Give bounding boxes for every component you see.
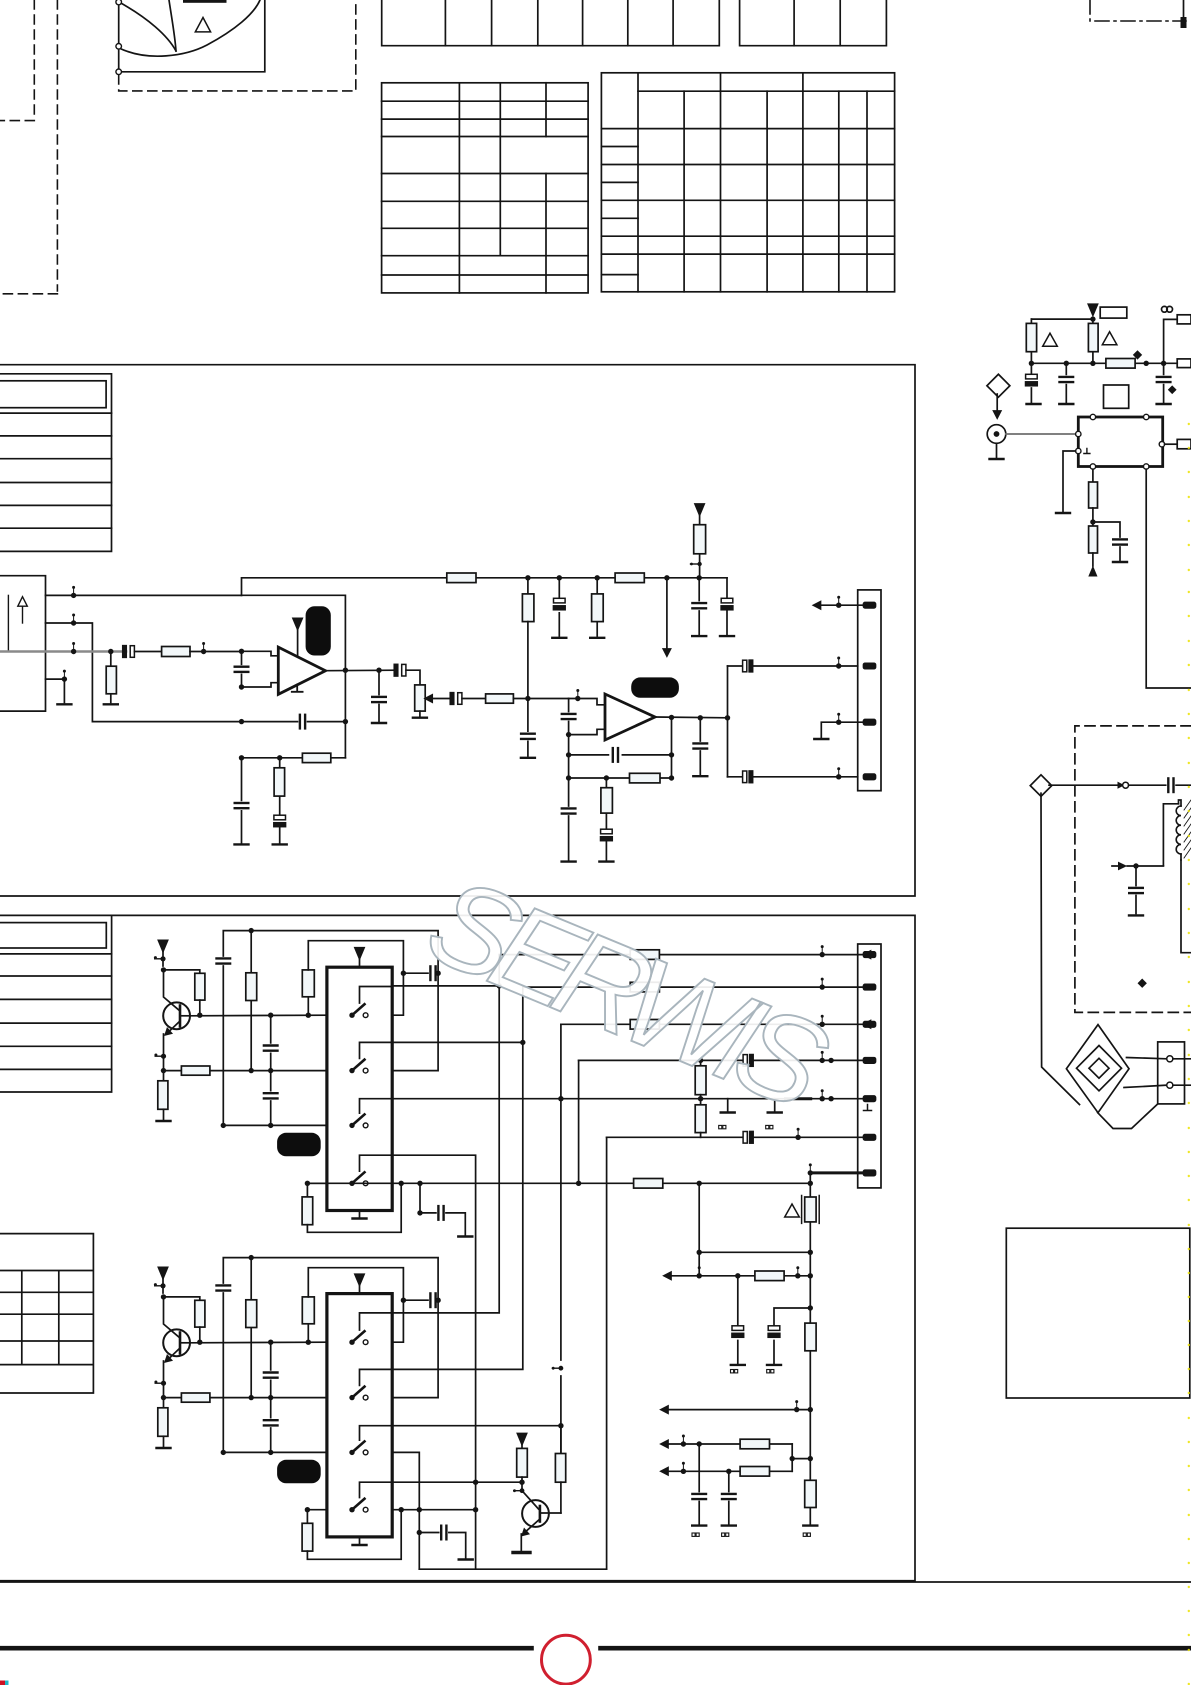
op-amp U1: [278, 647, 325, 694]
wire: [513, 698, 568, 700]
capacitor C21: [217, 958, 231, 963]
row 4 wire left: [307, 1182, 327, 1184]
yoke outer winding: [1066, 1025, 1129, 1113]
switch S7: [349, 1441, 368, 1455]
resistor R10: [279, 758, 281, 815]
resistor R105: [1089, 526, 1098, 553]
op-amp U2: [605, 694, 655, 740]
U1 power: [293, 618, 302, 629]
capacitor C9 below U1 output: [378, 670, 380, 721]
ground: [235, 843, 249, 845]
wire with arrow: [1049, 784, 1118, 786]
ground: [996, 443, 998, 457]
row B: [661, 1406, 668, 1413]
coil bottom wire: [1181, 860, 1191, 953]
dashed enclosure around CRT: [119, 0, 356, 91]
capacitor C32: [264, 1373, 278, 1378]
electrolytic capacitor C1: [123, 646, 135, 658]
wire: [1129, 784, 1166, 786]
vertical feed from row P7: [698, 1183, 700, 1276]
section box: [0, 915, 915, 1580]
resistor R23: [181, 1066, 210, 1075]
ground: [57, 703, 71, 705]
power: [517, 1434, 526, 1445]
top supply bus: [242, 578, 728, 596]
connector gnd glyph: [864, 1105, 872, 1111]
row P5 (switch3 out): [392, 1098, 863, 1100]
row P4: [579, 1059, 864, 1061]
wire: [1092, 508, 1094, 526]
switch S4: [349, 1172, 368, 1186]
capacitor C44: [728, 1471, 730, 1524]
op-amp U1 box top: [242, 595, 346, 758]
IC top capacitor C34: [403, 1299, 428, 1301]
power: [158, 940, 167, 951]
value label box: [1100, 307, 1127, 318]
pin 4: [864, 774, 876, 779]
left dashed partition line 2: [0, 0, 57, 294]
tuner to edge stub wire: [1165, 443, 1178, 445]
emitter rail: [155, 1055, 163, 1057]
capacitor C52: [1135, 866, 1137, 914]
ground: [693, 775, 707, 777]
ground: [599, 861, 613, 863]
U1 output wire: [326, 669, 397, 672]
wire to pot: [406, 670, 420, 685]
row P3: [561, 1023, 864, 1025]
yoke middle winding: [1077, 1046, 1122, 1091]
pin circle 1: [116, 0, 122, 5]
electrolytic capacitor C42: [774, 1308, 810, 1363]
switch S3: [349, 1114, 368, 1128]
IC2 ground: [359, 1537, 361, 1544]
node dot: [1090, 316, 1095, 321]
electrolytic capacitor C8: [450, 693, 462, 705]
resistor R43: [740, 1439, 769, 1449]
IC1 label blob: [277, 1133, 321, 1157]
transformer T1 coil: [1176, 806, 1181, 854]
registration marks: [0, 1681, 5, 1685]
net tick: [691, 563, 700, 565]
ground: [552, 637, 566, 639]
resistor R7: [694, 525, 706, 554]
electrolytic capacitor C10: [274, 815, 286, 826]
U2 output wire: [655, 716, 728, 719]
collector loop resistor R24: [307, 997, 309, 1015]
polarity marks: [731, 1370, 738, 1373]
wire row A1: [190, 1014, 327, 1017]
vertical main right rail: [809, 1173, 811, 1410]
resistor R4: [615, 573, 644, 583]
top loop wire: [223, 931, 438, 1126]
power symbol: [1088, 304, 1097, 315]
warning triangle: [195, 18, 210, 32]
wire row B1: [190, 1341, 327, 1344]
arrow down wire: [996, 394, 998, 412]
output coupling rail: [727, 666, 729, 777]
join rail: [792, 1444, 810, 1471]
transistor Q2: [163, 1329, 190, 1356]
video in diamond: [1030, 775, 1051, 796]
row P7 wire: [307, 1182, 810, 1184]
capacitor C23: [264, 1093, 278, 1098]
U2 feedback cap row: [569, 754, 672, 756]
ground: [1157, 403, 1171, 405]
collector loop resistor R34: [307, 1324, 309, 1342]
wire to load resistor: [164, 970, 200, 973]
ground: [372, 722, 386, 724]
thick ground: [513, 1551, 530, 1554]
bottom bus wire: [419, 1568, 606, 1570]
row r3' wire: [392, 1425, 561, 1427]
capacitor C51: [1168, 778, 1173, 792]
row r4b base feed: [392, 1481, 522, 1483]
input warning triangle: [18, 597, 28, 607]
IC2 power: [355, 1274, 364, 1285]
divider resistors R26/R27: [700, 1060, 702, 1065]
ground: [720, 635, 734, 637]
right rail lower: [809, 1410, 811, 1524]
wire row B2: [164, 1397, 327, 1399]
bottom loop: [307, 1510, 401, 1560]
infinity mark: [1162, 306, 1173, 312]
feed wire from diamond: [1041, 793, 1080, 1104]
transistor Q1: [163, 1002, 190, 1029]
cap ladder rail: [270, 1342, 272, 1452]
row A: [664, 1272, 671, 1279]
wire: [190, 651, 242, 653]
U1 feedback cap row: [242, 721, 346, 723]
resistor R41: [755, 1271, 784, 1281]
supply bus wire: [1031, 362, 1177, 364]
ground: [590, 637, 604, 639]
capacitor C13 at U2 out: [699, 718, 701, 775]
yoke connector box: [1158, 1042, 1185, 1104]
wire to capacitor: [1093, 522, 1120, 537]
top strip table 2: [740, 0, 887, 46]
resistor R2 to ground: [110, 652, 112, 703]
IC2 box: [327, 1294, 392, 1537]
power up triangle: [1088, 566, 1097, 577]
pin circle 3: [116, 69, 122, 75]
capacitor C31: [217, 1285, 231, 1290]
connector pins: [1167, 1056, 1173, 1062]
yoke curve 3: [169, 0, 176, 51]
ground: [692, 635, 706, 637]
wire W4: [46, 679, 65, 702]
wire: [462, 698, 486, 700]
resistor R101: [1026, 323, 1036, 351]
IC1 power: [355, 948, 364, 959]
ground: [521, 757, 535, 759]
resistor R22: [158, 1081, 168, 1110]
resistor R42: [805, 1480, 816, 1507]
row P6: [607, 1136, 864, 1138]
electrolytic capacitor C3: [558, 578, 560, 636]
resistor R31: [195, 1300, 205, 1327]
thick rule left: [0, 1646, 534, 1651]
ground: [1129, 914, 1143, 916]
row 4 wire left: [307, 1509, 327, 1511]
resistor R36: [517, 1448, 528, 1477]
wire: [1092, 553, 1094, 566]
resistor R6: [596, 578, 598, 636]
table row lines: [0, 953, 112, 955]
electrolytic capacitor C12: [601, 829, 613, 840]
ground: [1059, 403, 1073, 405]
electrolytic capacitor C15: [728, 776, 743, 778]
ground: [1056, 512, 1070, 514]
U2 feedback resistor row: [569, 777, 672, 779]
resistor R102: [1088, 323, 1098, 351]
resistor R12: [605, 778, 607, 829]
capacitor C104: [1113, 539, 1127, 544]
separator line: [0, 1581, 1191, 1583]
resistor R9: [302, 753, 330, 762]
gnd stub 2: [774, 1099, 776, 1111]
IC1 ground: [359, 1211, 361, 1218]
marker diamond: [1138, 979, 1147, 988]
capacitor C6 on input rail: [241, 651, 243, 687]
resistor R1: [162, 647, 190, 657]
U2 label blob: [631, 677, 679, 697]
pin circle 2: [116, 44, 122, 50]
ground: [1113, 561, 1127, 563]
left rail cap C11: [241, 758, 243, 843]
pin7 bold wire: [810, 1171, 863, 1174]
resistor R3: [447, 573, 476, 583]
U1 feedback resistor row: [242, 757, 346, 759]
top right dash-dot border corner: [1090, 0, 1186, 21]
decouple cap C25: [420, 1183, 465, 1235]
switch S5: [349, 1331, 368, 1345]
resistor R5: [527, 578, 529, 594]
inverting rail: [568, 699, 570, 861]
decouple cap C35: [419, 1533, 465, 1559]
electrolytic capacitor C101: [1030, 363, 1032, 402]
top right border stub line: [1183, 0, 1185, 18]
switch S1: [349, 1004, 368, 1018]
inverting input step: [569, 729, 605, 734]
yoke curve 2: [119, 0, 260, 56]
IC1 box: [327, 967, 392, 1210]
resistor R8: [486, 694, 514, 703]
dashed enclosure: [1075, 726, 1191, 1013]
tuner box: [1078, 417, 1162, 467]
wire to coil: [1176, 784, 1191, 786]
table row lines: [0, 412, 112, 414]
label box: [1104, 385, 1129, 408]
cap ladder rail: [270, 1015, 272, 1125]
top loop wire: [223, 1258, 438, 1453]
warning triangle 2: [1102, 332, 1117, 345]
wire W1: [46, 594, 242, 596]
ground: [157, 1447, 171, 1449]
resistor R11: [630, 773, 661, 783]
polarity diamond: [1133, 350, 1142, 359]
wire to resistor chain: [1092, 469, 1094, 482]
open node: [1123, 782, 1129, 788]
ground: [104, 703, 118, 705]
resistor R104: [1089, 482, 1098, 508]
wire: [1092, 319, 1094, 363]
inverting input: [242, 683, 279, 687]
resistor R21: [195, 973, 205, 1000]
edge connector stub 3: [1177, 439, 1191, 448]
electrolytic capacitor C14: [728, 665, 743, 667]
net tick: [514, 1490, 522, 1492]
yoke inner square: [1089, 1058, 1109, 1078]
edge stub wire: [1164, 319, 1178, 363]
U1 gnd stub: [292, 685, 303, 692]
resistor R35: [306, 1510, 308, 1524]
title box: [0, 381, 106, 408]
polarity marks: [719, 1125, 773, 1128]
emitter rail: [155, 1382, 163, 1384]
transistor Q3: [522, 1500, 549, 1527]
red stamp circle: [542, 1635, 591, 1684]
switch S2: [349, 1060, 368, 1074]
electrolytic capacitor C5: [726, 578, 728, 635]
colour bar dots on right edge: [1188, 423, 1190, 1685]
signal table right edge: [0, 915, 112, 1092]
yoke leads: [1124, 1058, 1167, 1088]
warning triangle: [785, 1204, 800, 1217]
input internal wire: [7, 595, 9, 651]
loop wire 2 with resistor: [250, 1258, 252, 1398]
bottom loop: [307, 1183, 401, 1232]
wire: [1031, 318, 1093, 320]
wire row A2: [164, 1070, 327, 1072]
ground: [273, 843, 287, 845]
wire RF to tuner: [1006, 433, 1079, 435]
pin 3: [864, 720, 876, 725]
capacitor C22: [264, 1046, 278, 1051]
bias arrow: [1118, 862, 1127, 871]
switch S6: [349, 1387, 368, 1401]
IC2 label blob: [277, 1460, 321, 1484]
row P2 (switch1 out): [392, 985, 499, 987]
pin 1: [864, 603, 876, 608]
resistor R25: [306, 1183, 308, 1197]
row C: [661, 1440, 668, 1447]
electrolytic capacitor C7: [394, 664, 406, 676]
yoke curve 1: [119, 2, 176, 51]
long IF wire: [1146, 469, 1191, 688]
yoke bottom hook: [1098, 1104, 1158, 1129]
pin wires to edge: [1173, 1059, 1191, 1085]
resistor R103: [1106, 359, 1135, 369]
capacitor C102: [1065, 363, 1067, 402]
signal out arrow: [666, 578, 668, 649]
yoke thick bar: [183, 0, 227, 3]
switch3b right extension: [392, 1452, 419, 1569]
junction dots: [1029, 361, 1167, 366]
Q3 right wire: [541, 1512, 561, 1514]
pin 2: [864, 663, 876, 668]
crossover wire: [699, 1251, 810, 1253]
capacitor C103: [1163, 363, 1165, 402]
input block box: [0, 576, 46, 711]
table B (right pinout table): [601, 73, 894, 292]
switch S8: [349, 1499, 368, 1513]
polarity diamond: [1168, 385, 1177, 394]
ground: [1027, 403, 1041, 405]
net tick on rail: [552, 1367, 561, 1369]
switch4 output wire: [392, 1509, 475, 1511]
core hatching: [1184, 800, 1191, 858]
table A (left parts table): [382, 83, 588, 293]
wire W3 gray input: [0, 650, 126, 653]
title box: [0, 923, 106, 948]
ground: [157, 1120, 171, 1122]
capacitor C2: [521, 734, 535, 739]
edge connector stub 1: [1177, 315, 1191, 324]
row D: [661, 1468, 668, 1475]
capacitor C4: [698, 578, 700, 635]
tuner agc wire: [1063, 451, 1076, 512]
left dashed partition line 1: [0, 0, 34, 121]
power feed: [695, 504, 704, 515]
resistor R44: [740, 1467, 769, 1477]
top right filled mark: [1181, 17, 1187, 28]
ground: [803, 1525, 817, 1527]
tuner internal gnd glyph: [1084, 449, 1090, 454]
loop wire 2 with resistor: [250, 931, 252, 1071]
tuner pins: [1076, 414, 1165, 469]
wire to load resistor: [164, 1297, 200, 1300]
resistor R28: [805, 1197, 816, 1222]
thick rule right: [598, 1646, 1191, 1651]
non-inverting input: [242, 651, 279, 656]
gnd stub 1: [727, 1099, 729, 1111]
signal table right edge: [0, 374, 112, 552]
bold net segment: [786, 1097, 811, 1100]
edge connector stub 2: [1177, 359, 1191, 368]
resistor R32: [158, 1408, 168, 1437]
wire: [1030, 319, 1032, 363]
wire row A3: [223, 1124, 327, 1126]
section box: [0, 365, 915, 896]
potentiometer P1: [415, 685, 426, 711]
switch2 out drop: [392, 1041, 523, 1043]
RF connector: [987, 425, 1006, 444]
connector box: [858, 590, 881, 791]
electrolytic capacitor C41: [737, 1276, 739, 1364]
warning triangle 1: [1043, 333, 1058, 346]
CRT box: [119, 0, 265, 72]
wire: [135, 651, 162, 653]
coil frame wire: [1163, 804, 1178, 866]
capacitor C43: [698, 1444, 700, 1524]
capacitor C33: [264, 1420, 278, 1425]
pot wiper arrow: [425, 695, 432, 702]
wire row B3: [223, 1451, 327, 1453]
resistor R37: [560, 1426, 562, 1454]
antenna diamond: [987, 374, 1010, 397]
top strip table 1: [382, 0, 720, 46]
resistor R33: [181, 1393, 210, 1402]
row P1: [499, 954, 863, 956]
IC top capacitor C24: [403, 972, 428, 974]
power: [158, 1267, 167, 1278]
U1 label blob: [306, 606, 331, 655]
wire W2: [46, 623, 242, 722]
